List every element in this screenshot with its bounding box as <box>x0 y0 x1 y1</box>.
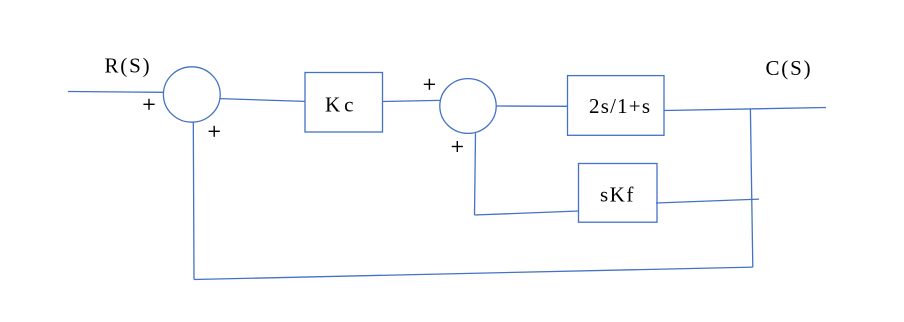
wire outer feedback bottom <box>194 267 753 279</box>
svg-text:R(S): R(S) <box>105 54 152 78</box>
wire S1 down <box>192 122 195 279</box>
plus sign at S2 feedback <box>452 146 463 148</box>
block 2s/1+s <box>568 76 665 136</box>
wire junction drop <box>750 109 752 267</box>
wire S1 to Kc <box>220 99 305 102</box>
plus sign at S1 feedback <box>209 130 220 132</box>
block Kc <box>305 73 383 133</box>
wire sKf output <box>656 199 759 203</box>
wire to sKf input <box>475 211 579 215</box>
svg-text:Kc: Kc <box>325 93 358 117</box>
wire Kc to S2 <box>383 100 440 101</box>
svg-text:2s/1+s: 2s/1+s <box>589 94 651 118</box>
wire S2 to plant block <box>496 105 567 107</box>
summing junction S2 <box>440 79 496 134</box>
block sKf <box>579 164 658 223</box>
wire input R(S) <box>68 91 163 94</box>
plus sign at S2 input <box>424 83 435 85</box>
svg-text:C(S): C(S) <box>766 56 813 80</box>
svg-text:sKf: sKf <box>600 183 635 207</box>
wire output C(S) <box>664 108 826 111</box>
summing junction S1 <box>163 67 220 122</box>
plus sign at S1 input <box>143 103 154 105</box>
wire S2 down <box>475 133 476 215</box>
